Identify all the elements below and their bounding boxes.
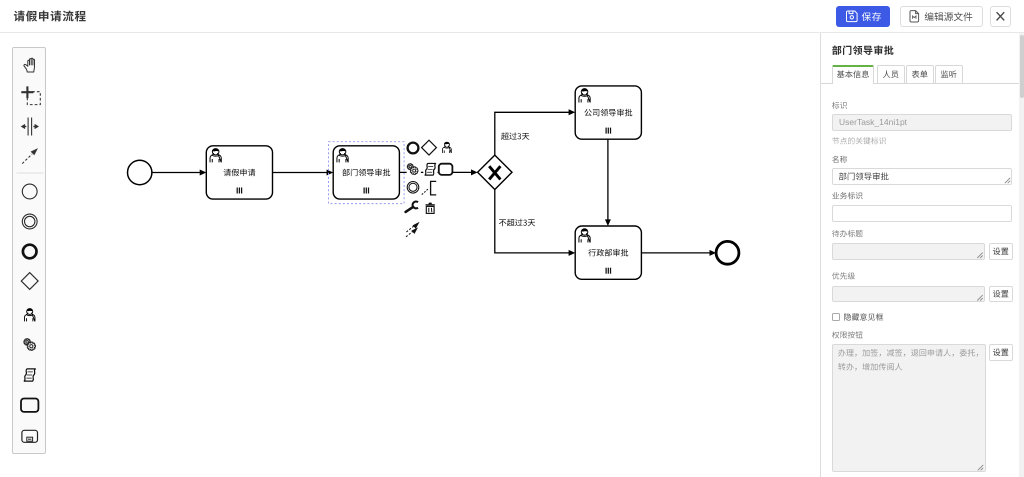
palette: create start event xyxy=(22,184,37,199)
wire: flow 行政部审批->end xyxy=(641,250,716,256)
label 标识 xyxy=(832,102,847,109)
tabs bottom border line xyxy=(821,83,1019,84)
textarea 名称 xyxy=(832,168,1012,186)
textarea line1 办理，加签，减签，退回申请人，委托， xyxy=(838,349,978,357)
context pad: append user task xyxy=(442,142,451,153)
page title 请假申请流程 xyxy=(14,11,86,22)
textarea line2 转办，增加传阅人 xyxy=(838,363,902,371)
resize handle 名称 xyxy=(1005,178,1010,183)
task 公司领导审批 (user task) xyxy=(575,86,641,139)
tab 人员 xyxy=(877,65,905,84)
start event xyxy=(128,160,152,184)
header bar xyxy=(0,0,1024,33)
edit source button icon (document) xyxy=(910,11,919,22)
resize handle 待办标题 xyxy=(977,253,982,258)
context pad: append gateway xyxy=(422,140,437,155)
input 业务标识 xyxy=(832,205,1012,222)
save button xyxy=(836,6,890,27)
panel title 部门领导审批 xyxy=(832,45,893,55)
context pad: trash (delete) xyxy=(426,203,435,214)
palette: lasso tool xyxy=(21,86,40,104)
wire: flow gateway->公司领导审批 (超过3天) xyxy=(495,109,575,155)
gateway: exclusive (X) xyxy=(478,155,512,189)
task 请假申请 (user task) xyxy=(206,146,272,199)
palette: create user task xyxy=(24,308,34,321)
tab label 表单 xyxy=(912,70,928,78)
context pad: append end event xyxy=(408,143,419,154)
context pad: text annotation xyxy=(422,181,436,195)
close button X xyxy=(997,12,1005,20)
label 待办标题 xyxy=(832,230,863,237)
textarea 优先级 (disabled) xyxy=(832,286,985,303)
textarea 待办标题 (disabled) xyxy=(832,243,985,260)
save button label 保存 xyxy=(862,12,881,21)
selection outline (selected task) xyxy=(329,142,405,204)
palette: create subprocess xyxy=(22,430,38,442)
button 设置 (优先级) xyxy=(989,286,1014,303)
button label 设置 (权限按钮) xyxy=(993,349,1009,356)
context pad: connect tool xyxy=(406,222,420,237)
save button icon (floppy) xyxy=(847,11,858,22)
palette: global connect tool xyxy=(22,148,38,164)
palette container xyxy=(12,47,46,454)
palette: create task xyxy=(21,399,38,412)
hint 节点的关键标识 xyxy=(832,137,886,144)
button 设置 (权限按钮) xyxy=(989,344,1014,361)
panel scrollbar track xyxy=(1019,33,1024,477)
panel scrollbar thumb xyxy=(1020,35,1024,98)
label 业务标识 xyxy=(832,192,862,199)
label 权限按钮 xyxy=(832,331,863,338)
label 超过3天 xyxy=(501,132,529,140)
resize handle 权限按钮 xyxy=(978,465,983,470)
checkbox 隐藏意见框 xyxy=(832,313,840,321)
edit source button label 编辑源文件 xyxy=(925,12,973,21)
resize handle 优先级 xyxy=(977,295,982,300)
button label 设置 (优先级) xyxy=(993,290,1009,297)
edit source button xyxy=(900,6,983,27)
palette: create intermediate event xyxy=(22,214,37,229)
button 设置 (待办标题) xyxy=(989,243,1014,260)
palette separator xyxy=(17,172,44,174)
palette: create gateway xyxy=(21,273,38,290)
context pad: append task (rect) xyxy=(439,164,453,175)
textarea 权限按钮 (disabled) xyxy=(832,344,986,472)
palette: create script task xyxy=(24,369,35,381)
tab label 监听 xyxy=(941,70,957,78)
palette: hand tool xyxy=(24,58,35,72)
properties panel xyxy=(820,33,1024,477)
checkbox label 隐藏意见框 xyxy=(844,313,883,321)
label 名称 xyxy=(832,156,847,163)
wire: sequence flow 部门领导审批->gateway xyxy=(399,169,477,175)
close button xyxy=(990,6,1011,27)
textarea value 部门领导审批 xyxy=(839,172,889,180)
tab 表单 xyxy=(906,65,934,84)
task 部门领导审批 (user task, selected) xyxy=(329,142,405,204)
input 标识 (disabled) xyxy=(832,114,1012,131)
context pad: append script task xyxy=(423,163,437,177)
task 行政部审批 (user task) xyxy=(575,226,641,279)
wire: flow 公司领导审批->行政部审批 xyxy=(605,139,611,226)
button label 设置 (待办标题) xyxy=(993,248,1009,255)
context pad: append intermediate event (double circle) xyxy=(407,182,419,194)
context pad: append service task (gear) xyxy=(407,163,421,177)
end event xyxy=(716,241,739,264)
palette: create service task xyxy=(24,339,36,351)
palette: create end event xyxy=(23,245,37,259)
label 不超过3天 xyxy=(499,219,535,227)
tab 基本信息 (active, green top) xyxy=(832,65,874,85)
bpmn canvas xyxy=(0,33,820,477)
label 优先级 xyxy=(832,272,855,279)
tab label 基本信息 xyxy=(837,70,869,78)
palette: space tool xyxy=(21,118,39,136)
tab 监听 xyxy=(935,65,963,84)
wire: flow gateway->行政部审批 (不超过3天) xyxy=(495,190,575,256)
tab label 人员 xyxy=(883,70,899,78)
wire: sequence flow start->请假申请 xyxy=(152,170,206,176)
wire: sequence flow 请假申请->部门领导审批 xyxy=(273,170,334,176)
context pad: wrench (change type) xyxy=(406,202,418,212)
